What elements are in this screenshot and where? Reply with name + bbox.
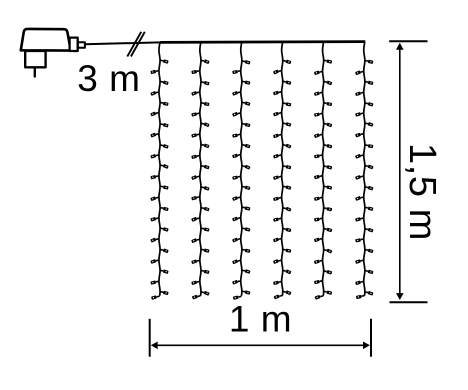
svg-text:3 m: 3 m — [77, 58, 140, 99]
svg-text:1 m: 1 m — [229, 299, 292, 340]
svg-text:1,5 m: 1,5 m — [401, 143, 443, 241]
